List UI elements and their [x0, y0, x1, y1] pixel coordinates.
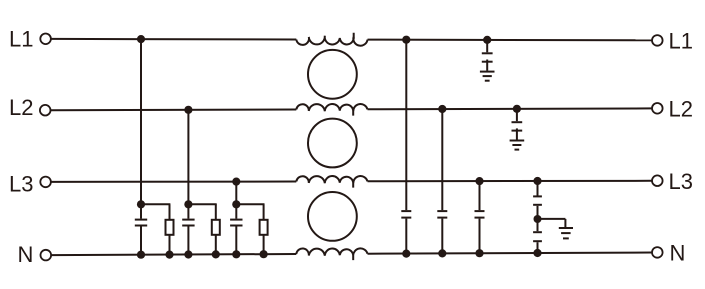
choke core circle 1 (L1/L2) [308, 50, 357, 99]
capacitor CX5 bottom lead [441, 219, 443, 254]
capacitor CX5 top plate [437, 210, 447, 212]
svg-text:L1: L1 [9, 27, 33, 52]
wire node 1 to resistor R1 [141, 203, 170, 205]
junction dot R3 on N [260, 250, 268, 258]
choke core circle 3 (L3/N) [308, 192, 357, 241]
wire L3 right segment [368, 180, 652, 183]
wire L1 left segment [51, 38, 296, 41]
wire L1 right segment [368, 39, 652, 42]
choke core circle 2 (L2/L3) [308, 119, 357, 168]
resistor R3 body [260, 220, 268, 235]
wire node 3 to resistor R3 [236, 203, 264, 205]
junction dot on line for CY1 (L1-ground) [483, 36, 491, 44]
junction dot CY4 on N [533, 249, 541, 257]
capacitor CY1 (L1-ground) bottom lead [486, 60, 488, 71]
capacitor CY3 top plate [533, 195, 542, 197]
junction dot on L2 at x=188 [184, 106, 192, 114]
capacitor CX6 top lead [479, 181, 481, 210]
capacitor CY3 bottom lead [537, 206, 539, 219]
junction dot on L3 at x=236 [232, 178, 240, 186]
capacitor CX2 bottom plate [182, 225, 194, 227]
chassis ground G3 bar 2 [561, 232, 571, 234]
capacitor CY4 top plate [533, 231, 542, 233]
capacitor CX6 top plate [475, 210, 485, 212]
output terminal L1 [652, 35, 663, 46]
junction dot CX5 on N [438, 249, 446, 257]
capacitor CX1 top plate [135, 219, 147, 221]
capacitor CY2 (L2-ground) bottom lead [516, 128, 518, 139]
resistor R2 top lead [215, 204, 217, 220]
resistor R1 top lead [169, 204, 171, 220]
capacitor CX5 bottom plate [437, 217, 447, 219]
wire vertical drop from L2 to RC node 2 [187, 110, 189, 205]
node dot between CY3 and CY4 [534, 215, 542, 223]
capacitor CX6 bottom plate [475, 217, 485, 219]
resistor R1 body [166, 220, 174, 235]
capacitor CX1 bottom lead [140, 227, 142, 255]
resistor R3 top lead [263, 204, 265, 220]
capacitor CX4 top lead [405, 40, 407, 210]
node dot RC pair 2 [184, 200, 192, 208]
input terminal N [41, 250, 52, 261]
output terminal L3 [652, 175, 663, 186]
capacitor CX3 top plate [230, 219, 242, 221]
resistor R3 bottom lead [263, 235, 265, 254]
inductor winding on N (choke) [296, 248, 367, 260]
svg-text:L2: L2 [9, 95, 33, 120]
capacitor CY4 bottom lead [537, 242, 539, 253]
ground symbol G1 bar 1 [480, 71, 495, 73]
svg-text:L3: L3 [9, 172, 33, 197]
capacitor CY3 top lead [537, 181, 539, 196]
wire N left segment [52, 254, 297, 255]
junction dot CX6 on N [475, 249, 483, 257]
capacitor CX3 bottom plate [230, 225, 242, 227]
inductor winding on L2 (choke) [296, 104, 367, 116]
capacitor CX1 top lead [140, 204, 142, 218]
junction dot on L1 at x=141 [137, 35, 145, 43]
wire stub from node to chassis ground [538, 218, 566, 220]
inductor winding on L1 (choke) [296, 33, 367, 46]
capacitor CX4 top plate [401, 210, 411, 212]
wire vertical drop from L3 to RC node 3 [235, 182, 237, 205]
capacitor CY1 (L1-ground) top lead [486, 40, 488, 52]
svg-text:L3: L3 [669, 169, 693, 194]
capacitor CY4 bottom plate [533, 240, 542, 242]
junction dot on L3 for CY3 [533, 177, 541, 185]
junction dot on L3 at x=480 [475, 177, 483, 185]
chassis ground G3 bar 3 [563, 237, 569, 239]
ground symbol G2 bar 1 [510, 140, 525, 142]
capacitor CX4 bottom plate [401, 217, 411, 219]
capacitor CY2 (L2-ground) top lead [516, 109, 518, 121]
junction dot CX4 on N [402, 250, 410, 258]
wire L3 left segment [51, 181, 296, 183]
capacitor CX3 top lead [235, 204, 237, 218]
chassis ground lead [564, 219, 566, 227]
resistor R1 bottom lead [169, 235, 171, 255]
capacitor CX2 bottom lead [187, 227, 189, 255]
capacitor CY3 bottom plate [533, 204, 542, 206]
junction dot R1 on N [165, 251, 173, 259]
junction dot R2 on N [212, 250, 220, 258]
wire N right segment [368, 253, 652, 254]
junction dot CX2 on N [184, 250, 192, 258]
capacitor CX6 bottom lead [479, 219, 481, 254]
capacitor CY2 (L2-ground) top plate [512, 121, 523, 123]
capacitor CY1 (L1-ground) bottom plate [482, 61, 493, 63]
junction dot on line for CY2 (L2-ground) [513, 105, 521, 113]
resistor R2 body [212, 220, 220, 235]
svg-text:L1: L1 [669, 28, 693, 53]
ground symbol G2 bar 3 [515, 149, 520, 151]
capacitor CY4 top lead [537, 219, 539, 231]
svg-text:N: N [18, 242, 34, 267]
capacitor CX4 bottom lead [405, 219, 407, 254]
capacitor CX2 top plate [182, 219, 194, 221]
ground symbol G1 bar 3 [485, 80, 490, 82]
output terminal N [652, 247, 663, 258]
capacitor CX5 top lead [441, 109, 443, 210]
input terminal L3 [40, 177, 51, 188]
capacitor CX1 bottom plate [135, 225, 147, 227]
capacitor CY2 (L2-ground) bottom plate [512, 130, 523, 132]
junction dot on L2 at x=442 [438, 105, 446, 113]
output terminal L2 [652, 103, 663, 114]
junction dot CX1 on N [137, 251, 145, 259]
wire L2 left segment [51, 109, 296, 112]
wire L2 right segment [368, 107, 652, 110]
svg-text:N: N [670, 240, 686, 265]
wire vertical drop from L1 to RC node 1 [140, 39, 142, 204]
junction dot CX3 on N [232, 250, 240, 258]
svg-text:L2: L2 [669, 96, 693, 121]
capacitor CY1 (L1-ground) top plate [482, 52, 493, 54]
capacitor CX3 bottom lead [235, 227, 237, 255]
ground symbol G2 bar 2 [512, 144, 521, 146]
node dot RC pair 3 [232, 200, 240, 208]
inductor winding on L3 (choke) [296, 176, 367, 188]
wire node 2 to resistor R2 [188, 203, 216, 205]
junction dot on L1 at x=406 [402, 36, 410, 44]
resistor R2 bottom lead [215, 235, 217, 255]
ground symbol G1 bar 2 [483, 75, 492, 77]
input terminal L1 [40, 34, 51, 45]
chassis ground G3 bar 1 [559, 227, 573, 229]
capacitor CX2 top lead [187, 204, 189, 218]
input terminal L2 [40, 105, 51, 116]
node dot RC pair 1 [137, 200, 145, 208]
